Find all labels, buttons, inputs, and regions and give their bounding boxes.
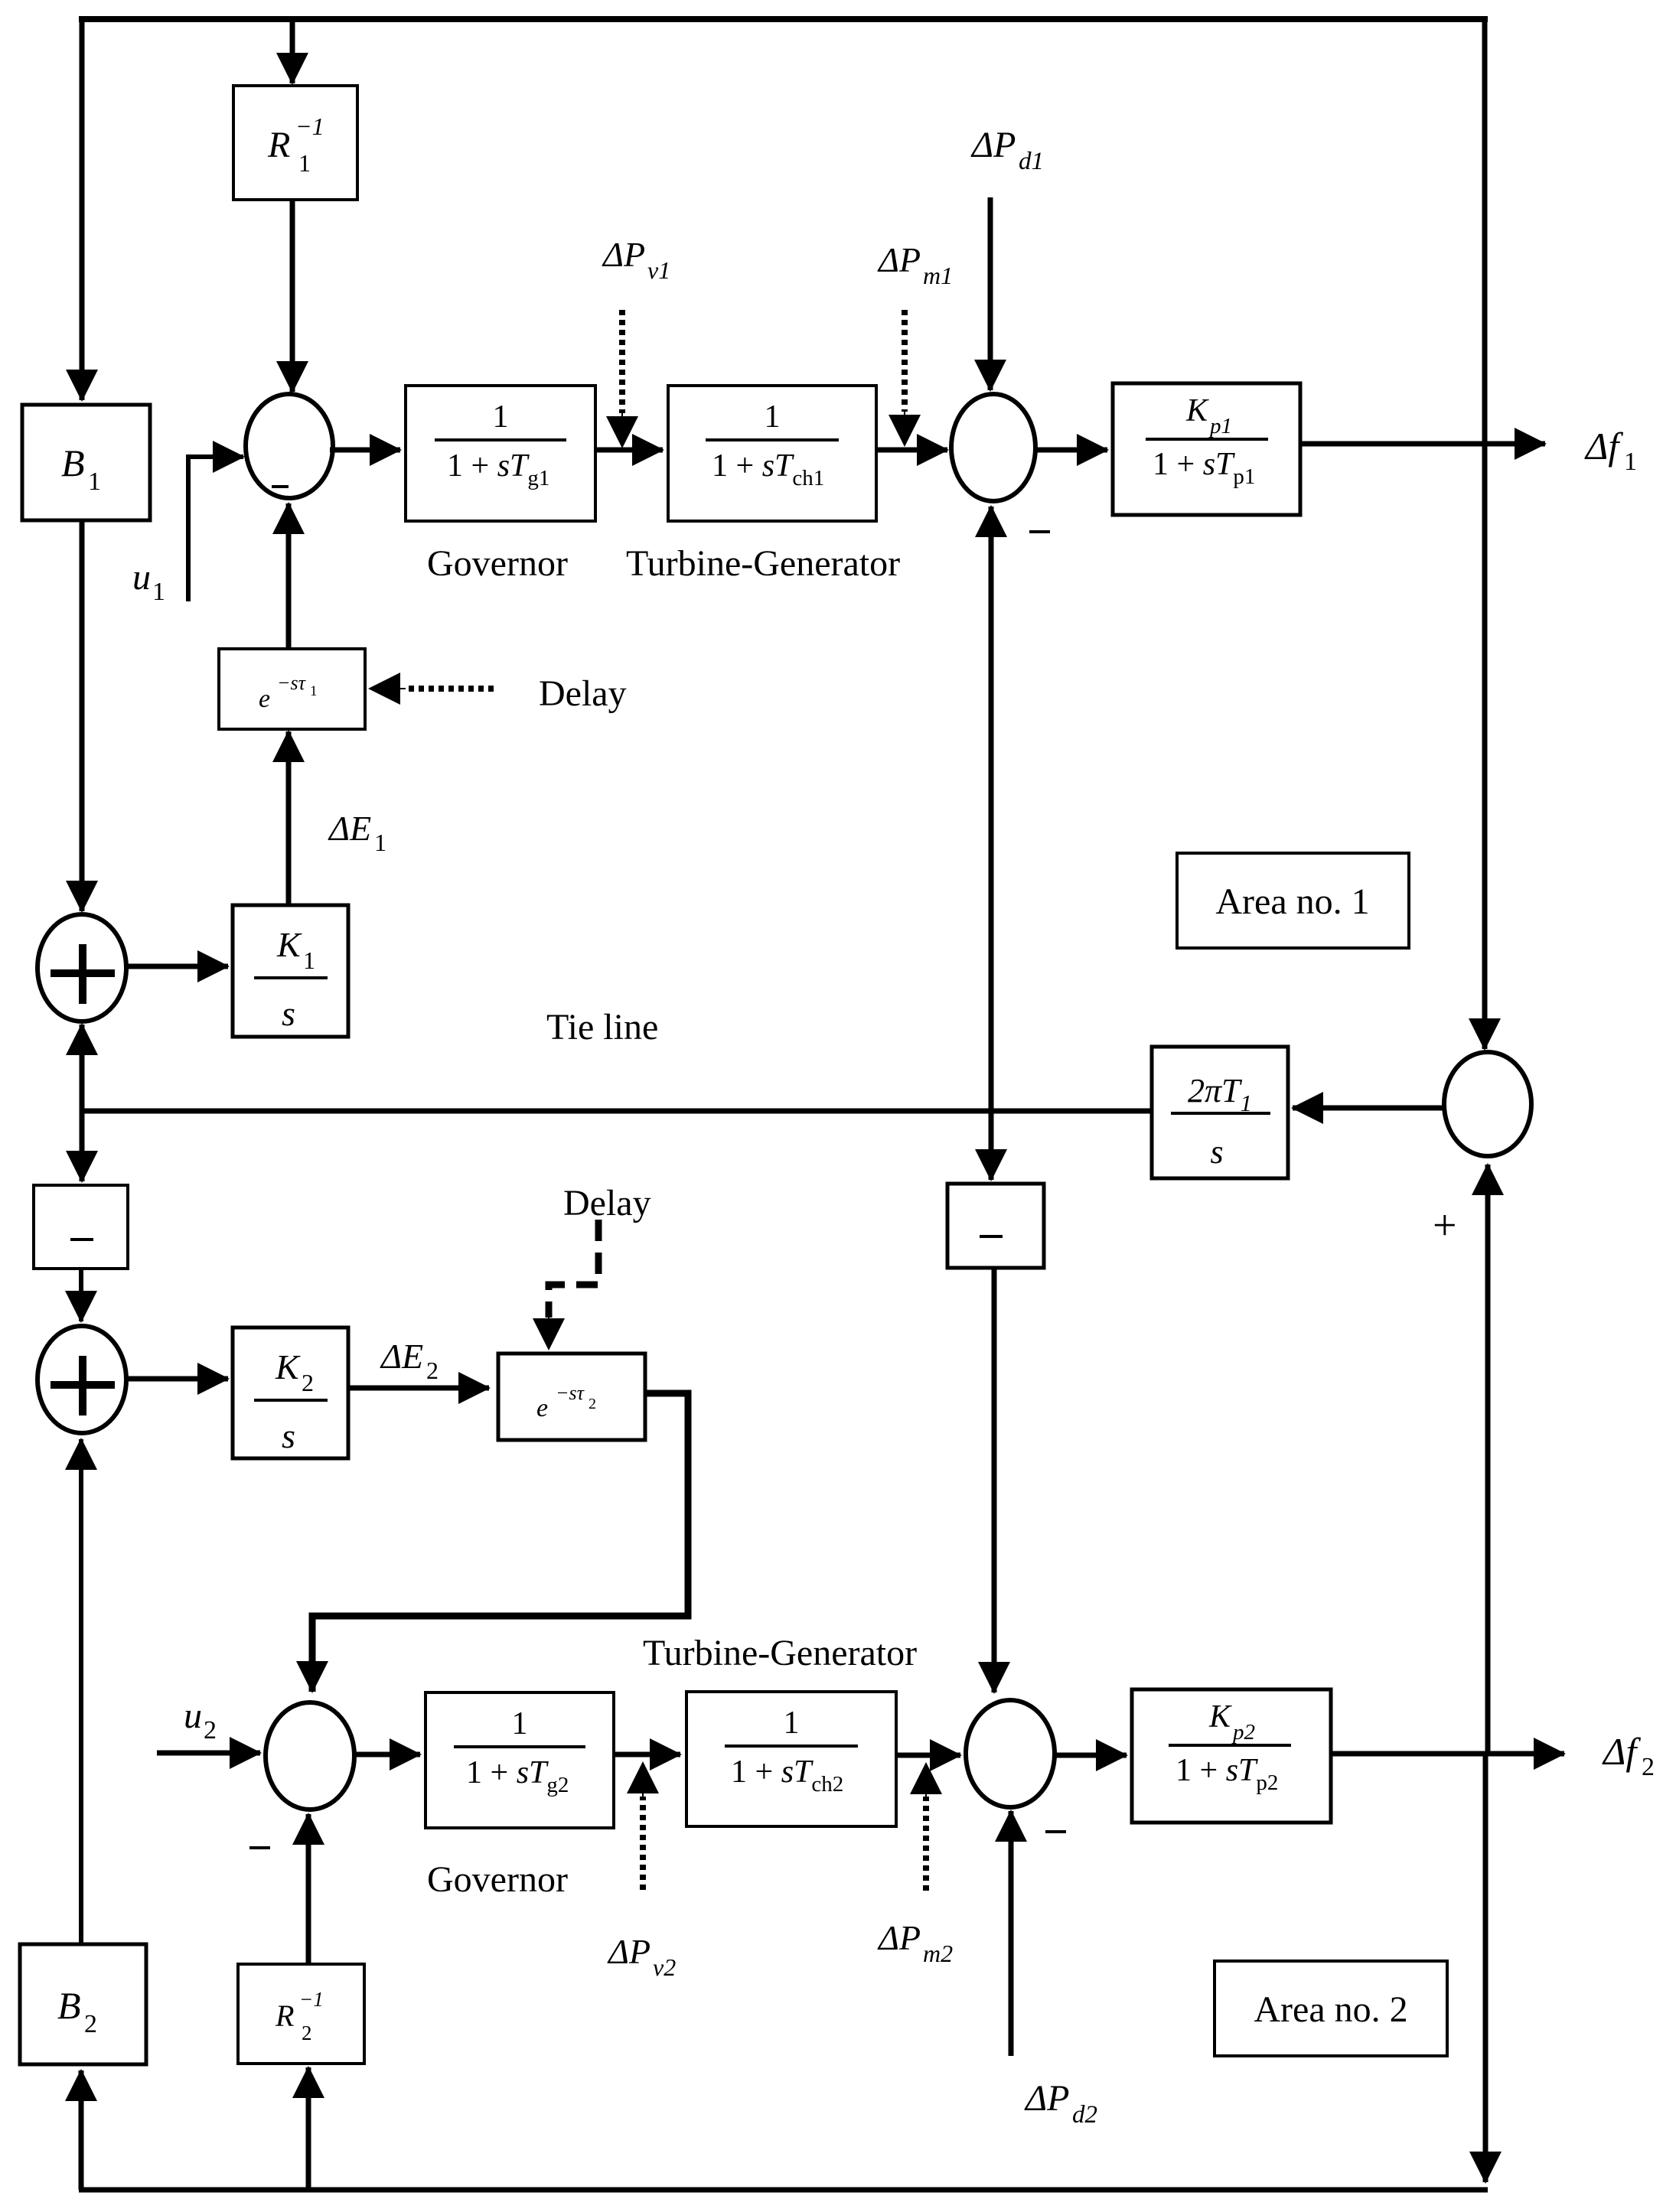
wire right vertical rail top (Delta f1 down to tie summer) (1482, 16, 1488, 1049)
minus sign at S1 bottom input (272, 485, 289, 488)
node Delay dashed pointer into delay2 (549, 1220, 598, 1349)
wire delay1 up into S1 bottom (286, 503, 292, 649)
block K1/s (233, 905, 348, 1037)
svg-text:B: B (61, 441, 85, 484)
wire Delta E2 from K2/s to delay2 (348, 1386, 489, 1391)
block K2/s (233, 1328, 348, 1458)
wire Kp1 output to Delta f1 (1300, 441, 1545, 447)
wire S1 to governor1 (330, 448, 400, 453)
svg-text:1: 1 (310, 683, 318, 699)
svg-text:e: e (259, 685, 270, 713)
svg-text:u: u (132, 557, 151, 598)
wire Kp2 output to Delta f2 (1331, 1751, 1564, 1757)
block delay1 e^-s-tau1 (219, 649, 365, 729)
node u1 input wire (188, 457, 243, 601)
svg-text:2: 2 (302, 1369, 314, 1396)
svg-text:1: 1 (298, 149, 311, 177)
label Delta E1 (328, 809, 386, 856)
svg-text:Area no. 2: Area no. 2 (1254, 1989, 1407, 2030)
svg-text:Turbine-Generator: Turbine-Generator (643, 1633, 917, 1673)
summer S3 (area1 frequency summer) (951, 394, 1035, 501)
svg-text:2: 2 (84, 2010, 97, 2038)
wire bottom rail up into R2 (306, 2067, 311, 2190)
svg-text:m1: m1 (923, 262, 953, 289)
block turbine2 1/(1+sTch2) (686, 1692, 896, 1826)
label DeltaPv2 (607, 1932, 676, 1981)
label Delta E2 (380, 1337, 439, 1384)
svg-text:ΔP: ΔP (877, 1918, 921, 1957)
plus sign in S2 (51, 944, 115, 1004)
svg-text:K: K (1208, 1699, 1232, 1735)
svg-text:u: u (184, 1696, 202, 1736)
wire DeltaPd2 up into S7 bottom (1009, 1811, 1014, 2056)
svg-text:ΔP: ΔP (602, 235, 645, 274)
wire Delta f2 up into tie summer bottom (1485, 1165, 1491, 1754)
wire right vertical rail bottom (Delta f2 down to bottom rail) (1483, 1754, 1489, 2182)
svg-text:1: 1 (493, 399, 509, 435)
wire sign box L to S4 (79, 1269, 83, 1321)
wire S4 to K2/s (125, 1376, 228, 1382)
svg-text:ΔP: ΔP (607, 1932, 651, 1971)
label DeltaPd2 (1024, 2078, 1097, 2129)
wire governor2 to turbine2 (614, 1752, 680, 1758)
block Kp2/(1+sTp2) (1132, 1689, 1331, 1823)
wire left vertical from top rail down to B1 (80, 16, 85, 400)
wire B1 down to ACE1 summer S2 (80, 520, 85, 911)
svg-text:−1: −1 (295, 112, 324, 140)
label Delta f2 (1602, 1730, 1655, 1781)
svg-text:−sτ: −sτ (556, 1382, 585, 1404)
block R2^-1 (238, 1964, 364, 2064)
wire DeltaPd1 into summer S3 (988, 197, 993, 390)
wire S6 to governor2 (354, 1752, 420, 1758)
wire bottom feedback rail (Delta f2 to left) (79, 2188, 1488, 2193)
label DeltaPm2 (877, 1918, 953, 1967)
svg-text:Δf: Δf (1584, 425, 1623, 467)
block sign inverter left (34, 1185, 128, 1269)
wire tie line horizontal (82, 1109, 1152, 1114)
svg-text:e: e (536, 1394, 548, 1422)
svg-text:2: 2 (589, 1396, 596, 1412)
node DeltaPv2 dotted pointer (640, 1763, 646, 1890)
label u2 (184, 1696, 217, 1745)
plus sign in S4 (51, 1356, 115, 1415)
minus sign at S6 bottom input (249, 1846, 270, 1849)
block governor2 1/(1+sTg2) (426, 1692, 614, 1828)
svg-text:v1: v1 (647, 256, 670, 284)
block B2 (20, 1944, 146, 2064)
svg-text:Area no. 1: Area no. 1 (1215, 881, 1369, 922)
svg-text:1: 1 (374, 829, 386, 856)
svg-text:s: s (282, 1416, 295, 1455)
node DeltaPm1 dotted pointer (902, 310, 908, 445)
minus sign at S3 bottom input (1029, 530, 1050, 533)
wire turbine2 to summer S7 (896, 1753, 960, 1758)
wire S2 to K1/s (125, 964, 228, 969)
svg-text:Governor: Governor (427, 1859, 568, 1900)
block R1^-1 (233, 86, 357, 200)
svg-text:2: 2 (302, 2021, 312, 2044)
svg-text:1: 1 (88, 467, 101, 496)
svg-text:ΔE: ΔE (380, 1337, 423, 1376)
svg-text:2: 2 (426, 1357, 439, 1384)
svg-text:d2: d2 (1072, 2101, 1097, 2129)
svg-text:Turbine-Generator: Turbine-Generator (626, 543, 900, 584)
wire top feedback rail (Delta f1 to left) (79, 16, 1488, 22)
svg-text:Delay: Delay (563, 1183, 651, 1223)
svg-text:s: s (282, 994, 295, 1033)
svg-text:d1: d1 (1019, 148, 1044, 175)
label DeltaPd1 (970, 125, 1044, 175)
summer S5 (tie summer) (1444, 1052, 1531, 1156)
svg-text:ΔE: ΔE (328, 809, 371, 848)
block turbine1 1/(1+sTch1) (668, 386, 876, 521)
wire Delta E1 from K1/s up to delay1 (286, 731, 292, 905)
summer S2 (ACE1 plus) (37, 914, 126, 1021)
wire sign box R down into S7 top (992, 1268, 997, 1692)
wire bottom rail up into B2 (79, 2070, 84, 2190)
svg-text:R: R (275, 1999, 294, 2033)
svg-text:K: K (276, 925, 302, 964)
svg-text:1: 1 (152, 578, 165, 606)
wire tie junction down into sign box R (989, 1111, 994, 1180)
wire B2 signal up into S4 bottom (79, 1439, 83, 1944)
svg-text:1: 1 (784, 1705, 800, 1741)
svg-text:p1: p1 (1208, 414, 1232, 438)
svg-text:m2: m2 (923, 1940, 953, 1967)
block Area no. 1 (1177, 853, 1409, 948)
wire delay2 output to S6 (area2 governor summer) (312, 1393, 688, 1692)
wire governor1 to turbine1 (595, 448, 663, 453)
block delay2 e^-s-tau2 (498, 1354, 645, 1440)
wire tie-line signal up into S3 bottom (989, 507, 994, 1111)
node u2 input wire (157, 1751, 260, 1756)
node DeltaPm2 dotted pointer (923, 1764, 929, 1891)
node DeltaPv1 dotted pointer (619, 310, 625, 447)
wire tie junction down to sign box L (80, 1111, 85, 1181)
node Delay dotted pointer into delay1 (370, 686, 494, 692)
summer S1 (area1 governor input) (246, 394, 333, 498)
wire drop from top rail into R1 (290, 19, 295, 83)
svg-text:ΔP: ΔP (1024, 2078, 1070, 2119)
wire S7 to Kp2 (1055, 1753, 1127, 1758)
block 2piT1/s (1152, 1047, 1288, 1178)
block Kp1/(1+sTp1) (1113, 383, 1300, 515)
svg-text:1: 1 (512, 1706, 528, 1741)
svg-text:2: 2 (1642, 1753, 1655, 1781)
wire S5 output to 2piT1/s (1293, 1106, 1444, 1111)
summer S4 (ACE2 plus) (37, 1326, 126, 1433)
svg-text:Δf: Δf (1602, 1730, 1641, 1773)
label Delta f1 (1584, 425, 1637, 476)
block Area no. 2 (1215, 1961, 1447, 2056)
svg-text:R: R (267, 125, 290, 165)
svg-text:−sτ: −sτ (277, 672, 307, 694)
block B1 (22, 405, 150, 520)
svg-text:Governor: Governor (427, 543, 568, 584)
summer S6 (area2 governor input) (266, 1702, 354, 1810)
svg-text:+: + (1433, 1202, 1457, 1249)
label DeltaPm1 (877, 240, 953, 289)
svg-text:1: 1 (765, 399, 781, 435)
wire R1 to summer S1 (290, 200, 295, 392)
svg-text:s: s (1210, 1133, 1223, 1171)
svg-text:K: K (275, 1347, 301, 1386)
svg-text:1: 1 (303, 946, 315, 974)
wire tie signal up into S2 bottom (80, 1025, 85, 1111)
svg-text:p2: p2 (1231, 1720, 1255, 1745)
svg-text:K: K (1185, 393, 1209, 428)
label DeltaPv1 (602, 235, 670, 284)
label u1 (132, 557, 165, 606)
svg-text:Delay: Delay (539, 673, 627, 714)
wire turbine1 to summer S3 (876, 448, 947, 453)
svg-text:1: 1 (1624, 448, 1637, 476)
block governor1 1/(1+sTg1) (406, 386, 595, 521)
svg-text:v2: v2 (653, 1953, 676, 1981)
svg-text:Tie line: Tie line (546, 1007, 658, 1047)
wire S3 to Kp1 (1035, 448, 1107, 453)
wire R2 up into S6 bottom (306, 1814, 311, 1964)
svg-text:ΔP: ΔP (877, 240, 921, 279)
block sign inverter right (947, 1184, 1044, 1268)
minus sign at S7 bottom input (1045, 1830, 1066, 1833)
svg-text:−1: −1 (299, 1988, 324, 2011)
svg-text:ΔP: ΔP (970, 125, 1016, 165)
svg-text:B: B (57, 1984, 81, 2027)
svg-text:2: 2 (204, 1716, 217, 1745)
summer S7 (area2 frequency summer) (966, 1700, 1055, 1807)
